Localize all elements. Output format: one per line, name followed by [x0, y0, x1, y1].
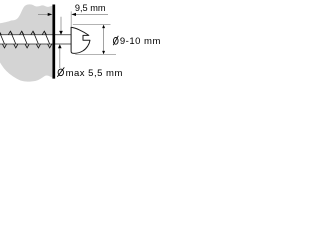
- screw shank outline lines: [0, 35, 71, 44]
- screw thread teeth and helix lines: [0, 31, 52, 48]
- leader arrow up to shank bottom: [58, 44, 62, 68]
- svg-text:9-10 mm: 9-10 mm: [120, 36, 161, 47]
- screw head (slotted, side view): [71, 27, 90, 53]
- head diameter top tick: [73, 23, 111, 25]
- head diameter bottom tick: [75, 53, 116, 55]
- dimension line 9,5 mm left segment with arrow: [38, 13, 52, 16]
- label diameter max 5,5 mm: [57, 67, 123, 79]
- label diameter 9-10 mm: [113, 36, 161, 47]
- extension line above screw head: [70, 11, 72, 27]
- dimension line 9,5 mm right segment with arrow: [71, 13, 108, 16]
- screw body white fill: [0, 35, 71, 44]
- vertical dimension double arrow: [102, 25, 105, 55]
- svg-text:9,5 mm: 9,5 mm: [75, 3, 106, 13]
- wall cross-section (gray silhouette): [0, 4, 53, 81]
- wall surface line: [52, 5, 55, 79]
- leader arrow down to shank top: [59, 17, 63, 35]
- svg-text:max 5,5 mm: max 5,5 mm: [66, 68, 123, 79]
